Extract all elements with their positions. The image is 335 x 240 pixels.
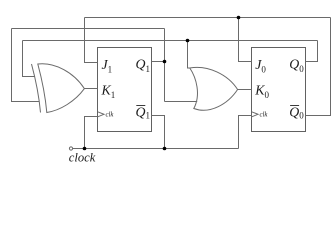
overline for Qbar0 — [290, 105, 299, 107]
wire Q1 to OR lower input — [165, 101, 198, 103]
wire net Q1 rail — [12, 28, 165, 30]
svg-text:J0: J0 — [255, 57, 266, 74]
wire Q1 rail left drop to XOR lower input — [12, 29, 40, 102]
svg-text:K0: K0 — [254, 83, 269, 100]
junction dot Qbar1 at clock rail — [163, 147, 167, 151]
wire Qbar0 rail left drop to J1 input — [85, 18, 98, 63]
xor gate G1 body — [38, 64, 85, 113]
wire Qbar1 output down to clock rail — [152, 116, 165, 149]
svg-text:Q0: Q0 — [289, 57, 304, 74]
or gate G2 body — [190, 67, 238, 110]
svg-text:Q1: Q1 — [136, 57, 150, 74]
wire Q0 tap down to OR upper input — [188, 41, 191, 69]
svg-text:J1: J1 — [102, 57, 113, 74]
wire clock tap up to U1 clk input — [85, 117, 98, 149]
clock input terminal circle — [69, 147, 72, 150]
wire Q0 rail right drop from Q0 output — [306, 41, 318, 62]
clk edge-trigger symbol U2 — [252, 112, 258, 117]
junction dot clock at U1 tap — [83, 147, 87, 151]
wire clock rail — [73, 148, 239, 150]
wire Q0 rail left drop to XOR upper input — [23, 41, 35, 77]
svg-text:clk: clk — [106, 111, 115, 118]
wire OR output to K0 input — [238, 89, 252, 91]
flip-flop U2 (JK) box — [252, 48, 306, 132]
wire Q1 vertical column — [164, 29, 166, 102]
svg-text:K1: K1 — [101, 83, 116, 100]
junction dot node Q1 — [163, 60, 167, 64]
wire Q1 output from U1 — [152, 61, 165, 63]
wire XOR output to K1 input — [84, 88, 97, 90]
wire net Qbar0 top rail — [85, 17, 331, 19]
junction dot node Q0 — [186, 39, 190, 43]
wire clock rail up to U2 clk input — [239, 116, 252, 149]
wire Qbar0 rail right drop to Qbar0 output — [306, 18, 331, 116]
wire net Q0 rail — [23, 40, 318, 42]
clk edge-trigger symbol U1 — [98, 112, 104, 117]
overline for Qbar1 — [136, 105, 145, 107]
svg-text:clock: clock — [69, 150, 96, 164]
svg-text:Q0: Q0 — [289, 105, 304, 121]
wire Qbar0 tap down to J0 input — [239, 18, 252, 62]
xor gate G1 outer input arc — [32, 64, 41, 113]
flip-flop U1 (JK) box — [98, 48, 152, 132]
svg-text:Q1: Q1 — [136, 105, 150, 121]
svg-text:clk: clk — [260, 111, 269, 118]
junction dot node Qbar0 at top rail — [237, 16, 241, 20]
